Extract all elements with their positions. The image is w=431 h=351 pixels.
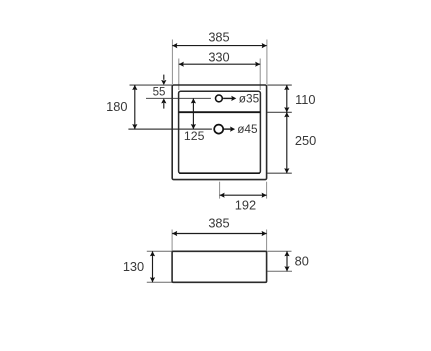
extension line inner bottom extended right [267,172,292,174]
front view extension line 80 bottom [267,270,292,272]
svg-text:330: 330 [208,49,229,64]
svg-text:192: 192 [235,197,256,212]
extension line 385 top right [266,40,268,85]
svg-text:ø45: ø45 [237,122,258,136]
extension line 330 left [178,59,180,91]
svg-text:125: 125 [184,129,205,143]
svg-text:ø35: ø35 [239,92,260,106]
dimension line 385 top [172,45,266,47]
front view extension line 385 left [171,230,173,251]
dimension 55 outside arrows [163,75,165,80]
top view inner rectangle [179,91,261,173]
extension line top edge extended left (for 55/180) [130,84,173,86]
leader arrow ø35 [223,97,232,99]
hole ø35 circle [216,95,223,102]
dimension line 180 [134,85,136,129]
front view rectangle [172,251,267,282]
front view extension line 385 right [266,230,268,251]
extension line 330 right [259,59,261,91]
svg-text:385: 385 [208,215,229,230]
dimension line 80 front [286,251,288,271]
dimension line 130 front [152,251,154,282]
extension line 192 left (center) [219,182,221,199]
svg-text:110: 110 [295,92,315,107]
svg-text:55: 55 [153,87,166,99]
top view ledge divider line [179,111,261,113]
dimension line 250 right [286,112,288,173]
front view extension line 130 top [147,250,172,252]
extension line 385 top left [171,40,173,85]
svg-text:80: 80 [295,254,309,269]
extension line hole ø35 centerline left [146,97,211,99]
front view extension line 80 top [267,250,291,252]
top view basin bottom edge (heavy) [179,172,260,174]
extension line 192 right [266,182,268,199]
extension line hole ø45 centerline left [128,128,212,130]
front view extension line 130 bottom [147,281,172,283]
top view outer rectangle [172,85,266,180]
dimension line 110 right [286,85,288,112]
extension line top edge extended right (for 110) [267,84,292,86]
svg-text:130: 130 [123,259,144,274]
dimension line 125 [192,98,194,129]
svg-text:385: 385 [208,30,229,45]
leader arrow ø45 [224,128,231,130]
hole ø45 circle [214,125,223,134]
dimension line 192 bottom [220,194,267,196]
dimension line 330 [179,63,260,65]
svg-text:180: 180 [106,99,127,114]
dimension line 385 front [172,233,266,235]
extension line divider extended right [267,111,292,113]
svg-text:250: 250 [295,133,316,148]
